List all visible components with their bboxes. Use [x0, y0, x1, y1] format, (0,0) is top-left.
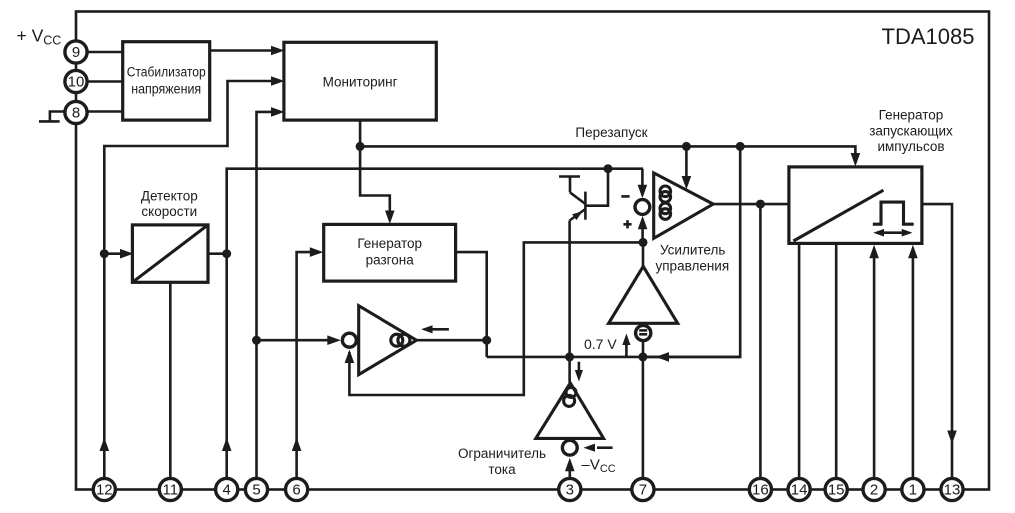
label plus — [623, 220, 631, 228]
node transistor base on setpoint line — [604, 164, 613, 173]
direction arrow into pin 13 — [947, 431, 957, 445]
pin 14 — [788, 478, 810, 500]
wire U5 output to pin 13 — [922, 204, 952, 477]
svg-text:9: 9 — [72, 44, 80, 61]
svg-text:7: 7 — [639, 482, 647, 499]
pin 5 — [245, 478, 267, 500]
wire source to rail — [642, 341, 645, 357]
svg-text:запускающих: запускающих — [869, 124, 953, 139]
pin 10 wire to U1 — [87, 80, 123, 83]
wire control amp output — [713, 203, 789, 206]
wire pin 16 riser — [759, 204, 762, 477]
svg-text:Генератор: Генератор — [879, 108, 944, 123]
direction arrow minus VCC — [584, 444, 613, 452]
svg-text:11: 11 — [163, 482, 179, 499]
label minus — [621, 195, 629, 198]
svg-text:скорости: скорости — [141, 204, 197, 219]
node rail/0.7V — [638, 352, 647, 361]
pin 9 wire to U1 — [87, 51, 123, 54]
block U4 Генератор разгона — [324, 224, 456, 281]
summing node circle — [635, 200, 650, 215]
svg-text:Ограничитель: Ограничитель — [458, 446, 546, 461]
wire Q1 emitter drop — [568, 221, 571, 357]
pin 8 wire to U1 — [87, 110, 123, 113]
wire minus input drop — [641, 169, 644, 194]
op-amp U6 Усилитель управления — [654, 173, 729, 274]
svg-text:управления: управления — [656, 259, 730, 274]
wire pin 5 riser to U2 input 3 — [257, 112, 273, 478]
wire U1 to U2 input 1 — [210, 46, 285, 56]
amp U9 Ограничитель тока — [458, 383, 604, 477]
pulse symbol inside U5 — [873, 202, 914, 224]
pin 3 — [559, 478, 581, 500]
node rail/limiter — [565, 352, 574, 361]
wire pin 15 riser — [835, 243, 838, 477]
svg-text:12: 12 — [96, 482, 113, 499]
arrowhead into U4 top — [385, 211, 395, 225]
wire U4 output to junction — [456, 252, 487, 357]
wire to inverter input — [257, 339, 330, 342]
svg-text:0.7 V: 0.7 V — [584, 336, 617, 352]
arrowhead into inverter input circle — [327, 335, 341, 345]
wire rail to limiter tip — [568, 357, 571, 383]
node amp out / pin 16 — [756, 200, 765, 209]
svg-text:14: 14 — [791, 482, 808, 499]
pin 15 — [825, 478, 847, 500]
svg-text:тока: тока — [488, 462, 516, 477]
direction arrow 0.7V — [622, 334, 630, 357]
transistor Q1 — [559, 169, 608, 221]
svg-text:4: 4 — [223, 482, 231, 499]
direction arrow on current rail — [656, 352, 670, 362]
svg-text:15: 15 — [828, 482, 845, 499]
node plus/feedback junction — [639, 238, 648, 247]
wire pin 4 riser and setpoint line — [227, 169, 643, 478]
svg-text:напряжения: напряжения — [131, 81, 201, 96]
wire feedback loop — [349, 242, 643, 395]
arrowhead into summing minus — [638, 185, 648, 199]
svg-text:Усилитель: Усилитель — [660, 243, 725, 258]
svg-text:Генератор: Генератор — [357, 236, 422, 251]
svg-text:1: 1 — [909, 482, 917, 499]
inverter input circle — [342, 333, 356, 347]
current direction arrow on pin 4 line — [222, 438, 232, 452]
node restart/U2 junction — [356, 142, 365, 151]
svg-text:Детектор: Детектор — [141, 189, 198, 204]
node pin5/inverter branch — [252, 336, 261, 345]
svg-text:импульсов: импульсов — [877, 139, 944, 154]
arrowhead feedback into inverter input — [345, 350, 355, 364]
pin 7 — [632, 478, 654, 500]
pin 9 — [65, 41, 87, 63]
arrowhead into detector — [120, 249, 134, 259]
pin 1 — [902, 478, 924, 500]
ramp symbol inside U5 — [793, 190, 883, 241]
node pin12/detector junction — [100, 249, 109, 258]
block U5 Генератор запускающих импульсов — [789, 108, 953, 244]
wire pin 7 riser — [642, 357, 645, 478]
wire detector output — [208, 252, 227, 255]
node restart/amp arrow — [682, 142, 691, 151]
pin 8 — [65, 101, 87, 123]
wire plus node to follower tip — [642, 242, 645, 266]
block U2 Мониторинг — [284, 42, 436, 120]
pin 16 — [749, 478, 771, 500]
pin 12 — [93, 478, 115, 500]
svg-text:6: 6 — [292, 482, 300, 499]
svg-text:13: 13 — [944, 482, 961, 499]
wire pin 2 riser — [873, 249, 876, 478]
block U3 Детектор скорости — [132, 189, 208, 283]
wire plus riser — [641, 221, 644, 242]
wire current rail — [487, 356, 741, 359]
arrowhead into U4 — [310, 247, 324, 257]
arrowhead into U2 input 3 — [271, 107, 285, 117]
node pin4/detector output — [222, 249, 231, 258]
wire U2 bottom to U4 top — [360, 120, 390, 211]
svg-text:2: 2 — [870, 482, 878, 499]
pin 4 — [216, 478, 238, 500]
wire pin 6 riser to U4 — [297, 252, 311, 477]
arrowhead into U2 input 2 — [271, 76, 285, 86]
svg-text:5: 5 — [252, 482, 260, 499]
svg-text:TDA1085: TDA1085 — [882, 24, 975, 49]
pin 8 tach hook symbol — [39, 112, 64, 122]
current direction arrow on pin 6 line — [292, 438, 302, 452]
wire pin 12 riser — [104, 81, 272, 478]
wire pin 3 to limiter circle — [568, 462, 571, 478]
wire restart line — [360, 146, 855, 154]
svg-text:Перезапуск: Перезапуск — [575, 125, 647, 140]
node restart/limit rail — [736, 142, 745, 151]
limiter bias circle — [562, 440, 577, 455]
wire pin 14 riser — [798, 243, 801, 477]
svg-text:разгона: разгона — [366, 253, 415, 268]
direction arrow into limiter — [575, 362, 583, 382]
wire pin 11 to detector bottom — [169, 282, 172, 477]
amp U8 0.7V follower — [609, 266, 678, 323]
wire inverter output — [417, 339, 487, 342]
pin 2 — [863, 478, 885, 500]
wire into speed detector — [104, 252, 121, 255]
svg-text:3: 3 — [566, 482, 574, 499]
svg-text:16: 16 — [752, 482, 769, 499]
direction arrow above inverter output — [421, 325, 449, 333]
node inverter output junction — [482, 336, 491, 345]
pin 11 — [159, 478, 181, 500]
current direction arrow on pin 12 line — [100, 438, 110, 452]
svg-text:Стабилизатор: Стабилизатор — [127, 65, 206, 80]
pin 13 — [941, 478, 963, 500]
inverter amp U7 — [359, 306, 417, 375]
wire restart to current rail — [643, 146, 740, 357]
pulse width double arrow inside U5 — [873, 229, 912, 237]
pin 10 — [65, 70, 87, 92]
svg-text:10: 10 — [68, 74, 85, 91]
svg-text:Мониторинг: Мониторинг — [323, 75, 398, 90]
svg-text:8: 8 — [72, 105, 80, 122]
pin 6 — [286, 478, 308, 500]
block U1 Стабилизатор напряжения — [123, 42, 210, 120]
wire pin 1 riser — [912, 249, 915, 478]
arrowhead into U5 top — [851, 153, 861, 167]
wire arrow into control amp top — [685, 146, 688, 178]
0.7V source circle — [636, 325, 651, 340]
